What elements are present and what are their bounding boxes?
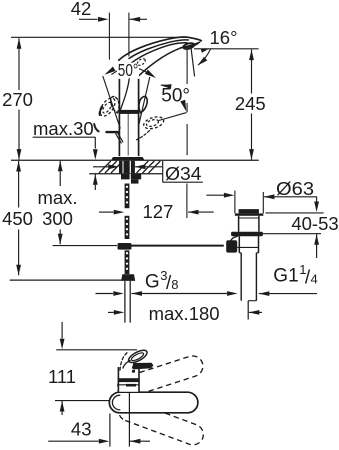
arrow 111 down — [60, 339, 65, 350]
drain lower body left wall — [238, 236, 240, 253]
drain flange underside line — [239, 217, 259, 219]
50deg-2 text mask — [161, 86, 193, 102]
arrow 245 up — [249, 50, 254, 61]
wire 450 dim lower — [18, 230, 20, 276]
drain tailpipe right wall — [255, 253, 257, 301]
arrow 42 left — [98, 17, 109, 22]
arrow 50deg-1 right — [145, 70, 156, 78]
wire leader from right ellipse — [159, 113, 187, 121]
svg-text:40-53: 40-53 — [291, 213, 338, 234]
wire 450 dim upper — [18, 161, 20, 208]
wire 127 dim right tail — [188, 211, 214, 213]
wire dia63 ext line left — [234, 191, 236, 214]
faucet body center seam — [127, 110, 129, 156]
arrow max300 down — [58, 234, 63, 245]
deck hatching right — [137, 161, 149, 173]
wire plan left ext line — [109, 414, 111, 447]
handle position right dashed ellipse — [142, 115, 165, 131]
spout tip dark wedge — [180, 41, 202, 48]
faucet body left wall — [118, 79, 120, 156]
arrow dia34 right — [135, 164, 146, 169]
svg-text:42: 42 — [71, 0, 92, 19]
wire 50deg-1 left leg — [103, 76, 121, 129]
arrow 42 right — [130, 17, 141, 22]
arrow 450 down — [16, 265, 21, 276]
wire countertop top line — [11, 159, 259, 161]
arrow 127 left — [114, 210, 125, 215]
drain rod ball socket knob — [226, 240, 237, 252]
wire 40-53 top boundary line — [266, 212, 324, 214]
svg-text:300: 300 — [42, 208, 73, 229]
wire dia34 left tail — [93, 166, 108, 168]
threaded stud segment 3 — [125, 250, 130, 274]
wire dia34 right tail — [135, 166, 163, 168]
drain step right — [256, 252, 258, 254]
rod coupling at stud — [118, 243, 132, 250]
wire dia34 leader vertical — [162, 161, 164, 182]
plan capsule left cap inner arc — [112, 395, 119, 410]
stud thread white dots — [126, 186, 128, 188]
plan lever knob inner — [130, 351, 144, 362]
wire countertop bottom line — [89, 173, 162, 175]
handle lower lip curl left dashed — [111, 96, 119, 112]
wire 270 dim lower — [18, 110, 20, 160]
svg-text:Ø63: Ø63 — [276, 178, 314, 199]
supply hose right wall — [129, 281, 131, 323]
drain lower body right wall — [258, 236, 260, 253]
plan lever pivot dot — [132, 370, 135, 373]
arrow max180 left — [114, 310, 125, 315]
arrow 270 down — [17, 149, 22, 160]
handle base dark bar — [119, 110, 138, 114]
wire max300 dim lower — [59, 230, 61, 245]
handle position left dashed ellipse — [97, 95, 118, 118]
arrow 50deg-1 left — [105, 67, 116, 75]
wire 43 dim right tail — [130, 440, 150, 442]
mounting washer — [121, 174, 141, 179]
wire spout level line — [194, 48, 259, 50]
pull-rod knob — [107, 131, 118, 133]
mounting bracket step — [131, 179, 139, 183]
wire 111 top ref line — [56, 349, 137, 351]
handle top outline — [119, 37, 202, 60]
plan lever knob outer — [127, 348, 149, 365]
svg-text:43: 43 — [71, 419, 92, 440]
drain locking collar — [231, 232, 263, 237]
wire 40-53 bottom tail — [316, 234, 318, 258]
supply hose left wall — [124, 281, 126, 323]
wire G38-G114 shared tail — [132, 293, 228, 295]
50deg-1 text mask — [117, 63, 139, 78]
arrow drain pipe left — [227, 291, 238, 296]
drain step left — [239, 252, 241, 254]
drain tailpipe lower line — [247, 301, 249, 320]
arrow 127 right — [188, 210, 199, 215]
svg-text:G1: G1 — [273, 266, 298, 287]
svg-text:max.: max. — [37, 187, 77, 208]
wire plan center ext line — [128, 392, 130, 446]
plan spout capsule solid — [109, 392, 198, 413]
arrow max.30 down at deck top — [93, 149, 98, 160]
drain tailpipe left wall — [240, 253, 242, 301]
wire 42 dim right tail — [130, 18, 147, 20]
wire max300 dim upper — [59, 161, 61, 186]
plan body dark band — [118, 378, 140, 382]
arrow 43 right — [130, 439, 141, 444]
wire 127 right ext line — [186, 190, 188, 218]
arrow max180 right — [249, 310, 259, 315]
wire 111 bottom tail — [61, 401, 63, 415]
arc 50deg-2 — [161, 85, 185, 108]
shank slot 2 — [129, 161, 131, 173]
hose cone adapter — [121, 274, 135, 281]
arrow 16deg at line — [201, 49, 209, 53]
drain strainer top — [239, 210, 259, 214]
svg-text:50°: 50° — [118, 60, 139, 80]
svg-text:127: 127 — [142, 201, 173, 222]
wire spout tip ext line stub — [186, 184, 188, 190]
drain rod-arm hook — [231, 236, 237, 240]
wire 43 dim left tail — [48, 440, 99, 442]
arrow dia34 left — [108, 164, 119, 169]
wire horizontal pop-up rod — [132, 245, 224, 247]
plan spout capsule dashed down position — [119, 400, 204, 444]
plan body mask — [118, 366, 139, 392]
handle third curve — [128, 43, 187, 66]
svg-text:Ø34: Ø34 — [165, 163, 202, 184]
svg-text:4: 4 — [311, 272, 318, 287]
spout aerator tip ellipse — [183, 42, 195, 50]
wire dia63 ext line right — [262, 192, 264, 213]
plan body line — [118, 384, 139, 386]
arrow 450 up — [16, 161, 21, 172]
handle position left inner dashed — [101, 101, 113, 114]
arrow G38 left — [113, 291, 124, 296]
plan lever inner curve — [123, 361, 130, 369]
wire G114 underline tail — [259, 293, 317, 295]
svg-text:50°: 50° — [161, 86, 190, 107]
wire spout tip ext line lower — [186, 103, 188, 112]
handle lower lip curl right — [139, 96, 147, 112]
wire 270 dim upper — [18, 38, 20, 90]
drain upper body left wall — [238, 216, 240, 232]
plan lever back dashed edge — [120, 353, 127, 372]
svg-text:16°: 16° — [210, 27, 238, 48]
wire top reference line (top of handle) — [11, 36, 186, 38]
wire max.30 lower tail — [94, 174, 96, 190]
shank slot 1 — [122, 161, 124, 173]
wire 111 bottom ref line — [55, 400, 109, 402]
arc 50deg-1 — [112, 67, 149, 74]
wire 40-53 top tail — [316, 197, 318, 202]
pull-rod stem — [116, 133, 123, 143]
wire max.30 underline leader — [33, 136, 96, 138]
arrow 245 down — [249, 149, 254, 160]
wire 50deg-1 right leg — [139, 77, 150, 124]
handle left position dark dashes — [100, 107, 102, 115]
arrow 16deg lower — [198, 57, 208, 66]
arrow G38 right — [132, 291, 143, 296]
arrow 111 up — [60, 401, 65, 412]
wire dia34 underline — [163, 181, 203, 183]
faucet neck front curve — [120, 79, 129, 110]
arrow 40-53 down — [314, 202, 319, 213]
wire 40-53 bottom boundary line — [263, 233, 321, 235]
arrow dia63 right — [264, 194, 275, 199]
wire G38 left tail — [96, 293, 114, 295]
arrow 43 left — [99, 439, 110, 444]
arrow 270 up — [17, 38, 22, 49]
arrow 50deg-2 lower — [180, 100, 186, 112]
drain tailpipe step — [248, 300, 256, 302]
arrow dia63 left — [224, 193, 235, 198]
svg-text:111: 111 — [48, 366, 76, 387]
threaded stud segment 1 — [125, 184, 130, 209]
svg-text:270: 270 — [2, 89, 33, 110]
arrow 50deg-2 upper — [161, 84, 172, 89]
wire 245 dim upper — [251, 50, 253, 94]
small dashed knob ellipse top — [136, 57, 146, 66]
wire max.30 vertical leader — [94, 137, 96, 148]
handle second curve — [129, 40, 188, 59]
wire max180 left tail — [108, 311, 114, 313]
arrow G114 at pipe — [259, 291, 270, 296]
wire 127 dim left tail — [99, 211, 114, 213]
arc 16deg — [198, 49, 210, 65]
washer slot — [129, 174, 131, 184]
wire dia63 underline tail — [264, 196, 317, 198]
faucet shank through deck — [119, 161, 135, 173]
plan spout capsule dashed up position — [118, 356, 203, 398]
handle position right inner dashed — [146, 118, 160, 127]
arrow max300 up — [58, 161, 63, 172]
plan body left wall — [117, 367, 119, 392]
svg-text:450: 450 — [2, 208, 33, 229]
handle left dark tip arc — [94, 124, 98, 131]
svg-text:max.30: max.30 — [33, 118, 94, 139]
arrow 40-53 up — [314, 234, 319, 245]
plan body center dark dash — [126, 384, 136, 387]
faucet body right wall — [138, 79, 140, 156]
drain strainer top edge — [239, 209, 259, 211]
wire max180 right tail — [249, 311, 262, 313]
svg-text:G: G — [145, 272, 160, 293]
faucet base flange — [111, 157, 145, 160]
wire max300 bottom ref line — [53, 245, 117, 247]
wire spout tip ext line mid — [186, 124, 188, 155]
svg-text:8: 8 — [171, 277, 178, 292]
drain flange plate — [235, 213, 263, 215]
wire 42 ext line right — [128, 13, 130, 57]
plan lever dark blade — [132, 363, 154, 370]
wire 16deg inclined leg — [191, 45, 195, 77]
wire 111 top tail — [61, 322, 63, 339]
threaded stud segment 2 — [125, 216, 130, 239]
svg-text:max.180: max.180 — [149, 303, 220, 324]
arrow max.30 up at deck bottom — [93, 174, 98, 185]
wire 42 dim left tail — [79, 18, 98, 20]
spout underside curve — [139, 46, 189, 75]
deck hatching left — [99, 161, 111, 173]
wire 450 bottom ref line — [10, 279, 122, 281]
plan body right wall — [138, 367, 140, 392]
drain upper body right wall — [258, 216, 260, 232]
drain lower body band line — [237, 246, 258, 248]
wire dia63 left tail — [206, 194, 224, 196]
wire 245 dim lower — [251, 114, 253, 160]
dashed arc lever-down — [137, 131, 150, 140]
wire spout tip ext line upper — [186, 49, 188, 85]
svg-text:245: 245 — [235, 93, 266, 114]
wire 42 ext line left — [108, 13, 110, 60]
